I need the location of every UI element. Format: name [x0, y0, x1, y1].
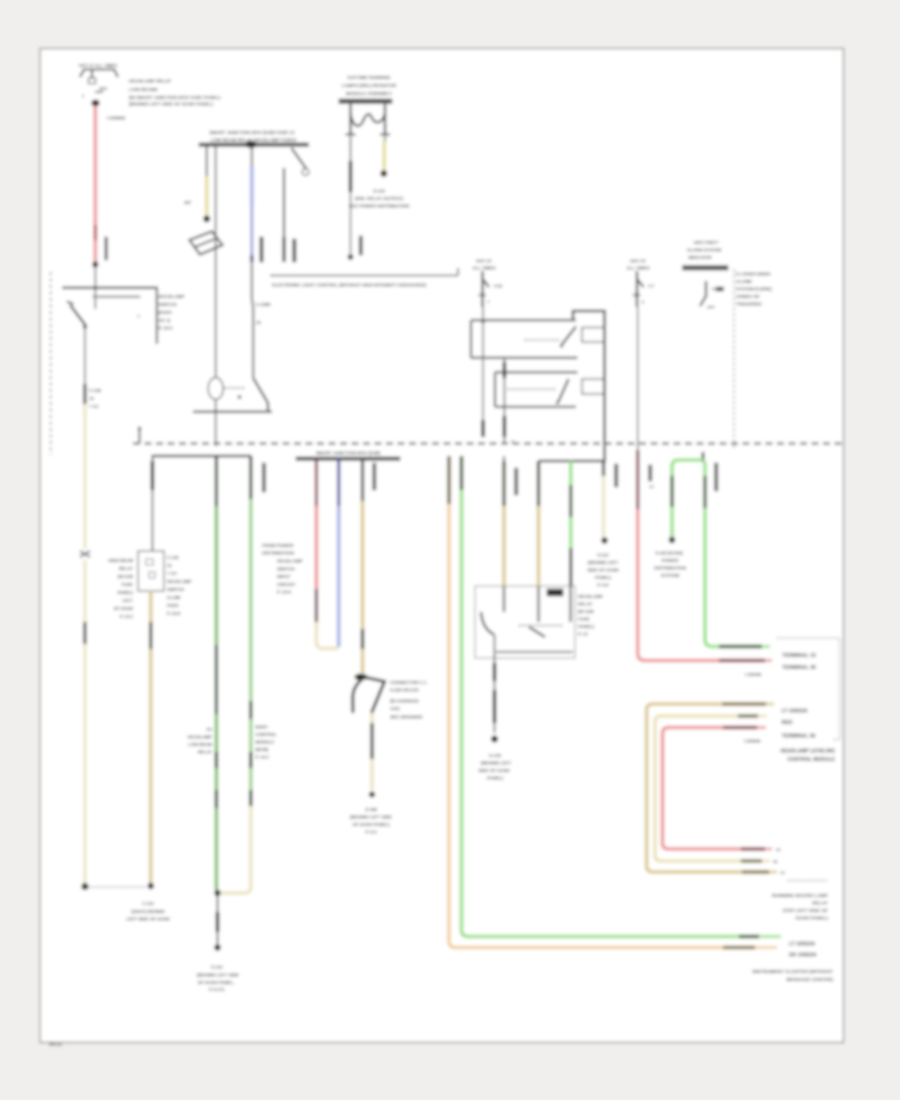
svg-text:ARMED OR: ARMED OR — [736, 294, 760, 299]
wire W4 lower thin wire — [252, 308, 254, 378]
svg-text:MODULE ASSEMBLY: MODULE ASSEMBLY — [346, 91, 392, 96]
resistor terminal ticks — [346, 133, 356, 135]
svg-text:HEADLAMP: HEADLAMP — [159, 294, 185, 299]
svg-text:RELAY: RELAY — [812, 901, 829, 907]
svg-text:(BEHIND LEFT: (BEHIND LEFT — [588, 560, 619, 565]
svg-text:HEADLAMP: HEADLAMP — [578, 594, 603, 599]
svg-text:ALARM: ALARM — [736, 279, 752, 284]
svg-text:(GRAY) BEHIND: (GRAY) BEHIND — [131, 909, 164, 914]
fuse F2 element — [481, 271, 483, 307]
svg-text:P. 14-2: P. 14-2 — [256, 755, 270, 760]
junction node red wire and bus — [94, 286, 98, 290]
hook circle — [302, 169, 309, 176]
svg-text:LT GREEN: LT GREEN — [782, 709, 808, 715]
svg-text:DISTRIBUTION: DISTRIBUTION — [262, 551, 294, 556]
svg-text:SEE POWER DISTRIBUTION: SEE POWER DISTRIBUTION — [349, 204, 410, 209]
wire W17 cream below flag — [370, 713, 374, 723]
connector bar C9 — [649, 465, 652, 481]
ring terminal wedge W3 — [190, 232, 223, 255]
relay feed line A — [471, 319, 576, 321]
connector bar C2 — [293, 239, 296, 262]
svg-text:(IN SMART JUNCTION BOX FUSE PA: (IN SMART JUNCTION BOX FUSE PANEL) — [129, 95, 221, 100]
wire W13 dark top segment — [215, 456, 218, 506]
wire W13 dark segment 2 — [215, 645, 218, 714]
svg-text:C-130: C-130 — [167, 555, 179, 560]
svg-text:LT GREEN: LT GREEN — [789, 942, 815, 948]
system reference line electronic light control — [270, 274, 458, 276]
svg-text:DISTRIBUTION: DISTRIBUTION — [654, 566, 686, 571]
svg-text:F.32: F.32 — [494, 284, 503, 289]
svg-text:SEE GROUNDS: SEE GROUNDS — [390, 715, 423, 720]
wire W13 dark segment 3 — [215, 752, 218, 768]
wire W14 dark segment 4 — [249, 790, 252, 806]
wire W6 thin lower — [350, 192, 352, 254]
svg-text:HEADLAMP: HEADLAMP — [277, 559, 303, 564]
wire W1 red segment — [94, 106, 98, 225]
wire W9 dark segment B — [503, 416, 506, 437]
wire W23 green jog — [672, 460, 703, 538]
module DRL underline bar — [339, 99, 392, 104]
svg-text:POWER: POWER — [661, 558, 679, 563]
svg-text:C-2280: C-2280 — [256, 302, 271, 307]
wire W13 green — [215, 506, 219, 645]
wire W4 blue segment — [250, 166, 254, 205]
system bracket right — [777, 638, 840, 740]
svg-text:RELAY: RELAY — [578, 602, 593, 607]
svg-text:CONTROL: CONTROL — [256, 732, 278, 737]
splice dot S4 — [601, 537, 607, 543]
svg-text:CIRCUIT: CIRCUIT — [277, 582, 295, 587]
svg-text:(BEHIND LEFT SIDE: (BEHIND LEFT SIDE — [350, 815, 392, 820]
svg-text:56: 56 — [773, 859, 778, 864]
wire W17 tan — [361, 501, 365, 629]
wire W15 pink — [315, 506, 319, 589]
svg-text:PANEL): PANEL) — [578, 624, 595, 629]
dimmer switch body circle — [208, 378, 223, 400]
relay box outline — [475, 586, 575, 658]
svg-text:DK GREEN: DK GREEN — [789, 953, 817, 959]
wire W17 dark segment 3 — [370, 723, 373, 759]
connector bar C6 — [373, 463, 376, 490]
svg-text:OFF: OFF — [707, 305, 716, 310]
headlamp switch inner bar — [93, 296, 141, 298]
wire W17 tan dark segment — [361, 461, 364, 502]
svg-text:C-112: C-112 — [142, 901, 154, 906]
svg-text:(IN HARNESS: (IN HARNESS — [390, 699, 419, 704]
svg-text:20A: 20A — [633, 293, 642, 298]
svg-text:P. 9-6: P. 9-6 — [597, 583, 609, 588]
svg-text:15: 15 — [256, 320, 261, 325]
dashed signal line — [733, 269, 735, 448]
svg-text:LOW BEAMS: LOW BEAMS — [129, 87, 158, 92]
svg-text:P. 13-2: P. 13-2 — [120, 614, 134, 619]
svg-text:15: 15 — [649, 484, 654, 489]
wire W29 tan L-shape — [447, 456, 451, 504]
svg-text:(IN SJB: (IN SJB — [578, 609, 594, 614]
wire W14 dark top segment — [249, 456, 252, 499]
wire W1 into switch — [94, 267, 96, 309]
svg-text:ELECTRONIC LIGHT CONTROL (WITH: ELECTRONIC LIGHT CONTROL (WITHOUT HIGH I… — [272, 283, 427, 288]
svg-text:14A): 14A) — [390, 706, 400, 711]
wire W11 dark segment — [151, 461, 154, 490]
wire W9 dark segment A — [503, 362, 506, 378]
relay R1 switch arm — [562, 327, 577, 346]
wire W4 blue dark segment — [251, 205, 254, 255]
svg-text:ALARM SYSTEM: ALARM SYSTEM — [687, 248, 722, 253]
wire W10 from fuse F3 — [637, 307, 639, 450]
wire W22 maroon end segment — [719, 659, 765, 663]
bus left end tick — [138, 430, 140, 443]
wire W12 dark segment — [149, 622, 152, 649]
junction dot on line A — [481, 319, 485, 323]
connector bar C5 — [262, 463, 265, 492]
svg-text:CONNECTOR C-1: CONNECTOR C-1 — [390, 680, 427, 685]
lower junction line L2 — [152, 455, 252, 457]
dotted tie line — [88, 886, 147, 888]
svg-text:(IN SJB: (IN SJB — [118, 574, 133, 579]
wire W27 maroon segment top — [723, 726, 757, 729]
wire W9 relay output — [503, 358, 505, 362]
relay box switch arm — [529, 627, 545, 637]
wire W21 ivory stub — [602, 461, 605, 476]
svg-text:T GY: T GY — [167, 571, 177, 576]
headlamp switch lever — [67, 302, 74, 305]
svg-text:RUNNING BOARD LAMP: RUNNING BOARD LAMP — [772, 893, 829, 899]
svg-text:G-110: G-110 — [489, 753, 502, 758]
svg-text:C-130: C-130 — [89, 388, 102, 393]
center wire lower — [215, 400, 217, 447]
svg-text:(DRL RELAY OUTPUT): (DRL RELAY OUTPUT) — [355, 196, 403, 201]
wire W24 green to elbow terminal 15 — [705, 508, 762, 647]
wire W15 dark segment — [315, 589, 318, 622]
svg-text:HIGH BEAM: HIGH BEAM — [108, 558, 133, 563]
wire W1 red lower segment — [94, 240, 98, 262]
svg-text:INDICATOR: INDICATOR — [688, 255, 712, 260]
wire W24 dark segment — [703, 476, 706, 508]
wire W2 crossing tick — [80, 551, 90, 557]
wire W2 end terminal — [81, 883, 88, 890]
anti-theft switch symbol — [705, 281, 707, 297]
wire W13 green 3 — [215, 768, 219, 790]
svg-text:FLASHES WHEN: FLASHES WHEN — [736, 272, 770, 277]
svg-text:(TOP LEFT SIDE OF: (TOP LEFT SIDE OF — [783, 908, 828, 914]
module anti-theft underline bar — [683, 266, 729, 271]
wire W24 dark end segment — [719, 645, 762, 648]
svg-text:I-20445: I-20445 — [745, 672, 762, 678]
svg-text:S-420 SPLICE: S-420 SPLICE — [390, 688, 419, 693]
wire W1 terminal dot — [92, 262, 98, 268]
wire W22 maroon segment — [636, 450, 639, 509]
connector bar C7 — [515, 468, 518, 495]
wire W27 maroon segment bottom — [741, 847, 765, 850]
crimp splice flag symbol — [355, 674, 368, 681]
wire W29 dark end segment — [723, 946, 755, 949]
wire W25 dark segment bottom — [742, 870, 769, 873]
svg-text:OF 1): OF 1) — [159, 318, 171, 323]
wire W6 dark segment — [349, 161, 352, 192]
wire W3 black from SJB — [206, 147, 208, 177]
svg-text:FUSE: FUSE — [578, 617, 590, 622]
svg-text:SWITCH: SWITCH — [159, 302, 178, 307]
relay left vertical — [470, 320, 472, 358]
wire W14 dark segment 3 — [249, 752, 252, 768]
wire W5 gray from SJB — [283, 168, 285, 237]
svg-text:OF DASH PANEL,: OF DASH PANEL, — [198, 980, 235, 985]
svg-text:P. 9-17): P. 9-17) — [209, 987, 225, 992]
svg-text:SWITCH: SWITCH — [277, 566, 295, 571]
svg-text:S-115 (DASH): S-115 (DASH) — [655, 551, 683, 556]
wire W13 ground lead — [217, 896, 219, 912]
wire W28 end tick — [759, 935, 781, 938]
fuse F1 holder — [80, 70, 118, 78]
svg-text:HEADLAMP LEVELING: HEADLAMP LEVELING — [780, 749, 835, 755]
wire W27 inner red loop — [663, 728, 766, 850]
wire W2 inline connector segment — [83, 384, 86, 404]
svg-text:ALL TIMES: ALL TIMES — [472, 266, 495, 271]
svg-text:P. 9-4: P. 9-4 — [365, 830, 377, 835]
headlamp switch pivot — [83, 325, 87, 329]
wire W5 dark segment — [282, 237, 285, 262]
svg-text:54-21: 54-21 — [49, 1042, 62, 1048]
wire W11 black drop — [151, 456, 153, 461]
wire W3 terminal dot — [203, 215, 210, 222]
splice dot S2 — [214, 890, 220, 896]
wire W7 right post yellow — [384, 136, 386, 141]
ground terminal dot — [214, 944, 220, 950]
module SJB underline bar — [199, 143, 309, 146]
svg-text:HEADLAMP: HEADLAMP — [188, 735, 212, 740]
connector bar C3 — [260, 237, 263, 262]
svg-text:DASH PANEL): DASH PANEL) — [796, 916, 829, 922]
wire W12 tan tail — [149, 649, 153, 884]
wire W13 ground dark segment — [216, 912, 219, 932]
relay feed line B — [471, 357, 577, 359]
svg-text:15A: 15A — [99, 86, 108, 91]
module SJB lower underline bar — [296, 457, 400, 460]
svg-text:F.7: F.7 — [649, 284, 655, 289]
wire W17 dark segment 2 — [361, 629, 364, 649]
svg-text:(BEHIND LEFT SIDE OF DASH PANE: (BEHIND LEFT SIDE OF DASH PANEL) — [129, 102, 213, 107]
wire W2 inline connector segment 2 — [83, 622, 86, 644]
inline connector box B1 — [138, 551, 164, 591]
svg-text:S-110: S-110 — [373, 189, 385, 194]
svg-text:15A: 15A — [478, 293, 487, 298]
relay R2 dashed link — [508, 388, 556, 390]
relay R2 coil box — [582, 379, 604, 394]
resistor element — [351, 104, 386, 126]
wire W14 green 2 — [249, 719, 253, 752]
svg-text:SYSTEM IS (PRE): SYSTEM IS (PRE) — [736, 287, 772, 292]
wire W6 left post — [350, 136, 352, 161]
splice dot S1 — [380, 170, 387, 177]
svg-text:RELAY: RELAY — [198, 750, 212, 755]
wire W13 green tail — [215, 808, 219, 890]
svg-text:HOT AT: HOT AT — [476, 259, 492, 264]
wire W23 dark segment — [670, 476, 673, 507]
wire W25 outer tan loop — [647, 704, 770, 872]
svg-text:MESSAGE CENTER): MESSAGE CENTER) — [786, 977, 833, 983]
connector bar C10 — [715, 463, 718, 491]
wire W26 dark segment bottom — [741, 859, 762, 862]
wire W14 green 3 — [249, 768, 253, 790]
svg-text:LEFT SIDE OF DASH: LEFT SIDE OF DASH — [126, 917, 169, 922]
wire W2 upper gray — [84, 328, 86, 384]
svg-text:P. 10-5: P. 10-5 — [277, 590, 291, 595]
dashed boundary line left — [50, 272, 52, 455]
svg-text:TERMINAL 56: TERMINAL 56 — [782, 734, 816, 740]
wire W4 tip — [250, 255, 253, 262]
svg-text:CONTROL MODULE: CONTROL MODULE — [787, 757, 835, 763]
svg-text:LOW BEAM: LOW BEAM — [188, 742, 212, 747]
fuse F1 terminal — [91, 100, 99, 107]
wire W13 dark segment 4 — [215, 790, 218, 808]
wire W12 tan below box — [149, 591, 153, 622]
ground wire from relay box — [494, 635, 496, 664]
wire W17 tan lower — [361, 649, 365, 673]
relay feed line C — [495, 371, 577, 373]
wire W25 dark segment top — [722, 702, 766, 705]
svg-text:FEED: FEED — [167, 603, 178, 608]
svg-text:467: 467 — [184, 200, 192, 205]
wire W24 end tick — [762, 645, 770, 648]
relay box bold bar — [547, 589, 563, 596]
svg-text:S-112: S-112 — [597, 553, 609, 558]
wire W18 tan into relay box — [503, 456, 505, 461]
wire W24 green vertical — [703, 462, 707, 476]
relay box wire stubs — [503, 586, 505, 612]
svg-text:22: 22 — [167, 563, 172, 568]
svg-text:BODY: BODY — [256, 725, 269, 730]
wire W19 tan — [537, 461, 540, 506]
wire W16 blue dark segment — [337, 458, 340, 506]
svg-text:SIDE OF DASH: SIDE OF DASH — [587, 568, 618, 573]
svg-text:SMART JUNCTION BOX (SJB) FUSE: SMART JUNCTION BOX (SJB) FUSE 12 — [209, 130, 295, 135]
wire W26 dark segment top — [738, 714, 758, 717]
svg-text:ANTI-THEFT: ANTI-THEFT — [693, 240, 719, 245]
svg-text:ILLUM: ILLUM — [167, 595, 181, 600]
relay box dashed link — [519, 625, 563, 627]
svg-text:HOT AT ALL TIMES: HOT AT ALL TIMES — [79, 63, 117, 68]
svg-text:SYSTEM: SYSTEM — [661, 573, 680, 578]
svg-text:PANEL): PANEL) — [595, 575, 612, 580]
relay top jumper — [573, 311, 605, 461]
wire W14 green — [249, 499, 253, 701]
svg-text:(BEHIND LEFT: (BEHIND LEFT — [481, 761, 512, 766]
relay R1 coil box — [582, 328, 605, 343]
ground terminal dot G2 — [491, 736, 498, 743]
fuse F1 element — [91, 70, 93, 79]
svg-text:(PART: (PART — [159, 310, 173, 315]
relay box curve to ground — [481, 612, 494, 635]
svg-text:PANEL): PANEL) — [487, 776, 504, 781]
svg-text:FROM POWER: FROM POWER — [262, 543, 294, 548]
wire W20 green — [569, 461, 573, 485]
wire W26 middle tan loop — [655, 716, 762, 861]
svg-text:MODULE: MODULE — [256, 740, 275, 745]
svg-text:TO: TO — [206, 727, 213, 732]
svg-text:30: 30 — [776, 847, 781, 852]
splice dot S3 — [369, 792, 375, 798]
wire W28 green L-shape — [460, 456, 464, 490]
svg-text:I-20546: I-20546 — [744, 739, 761, 745]
wire W14 dark segment 2 — [249, 701, 252, 719]
svg-text:HEADLAMP RELAY: HEADLAMP RELAY — [129, 79, 171, 84]
svg-text:P. 24-8: P. 24-8 — [167, 611, 181, 616]
wire W13 green 2 — [215, 714, 219, 752]
svg-text:I-203845: I-203845 — [107, 116, 126, 121]
relay R1 dashed link — [525, 339, 562, 341]
headlamp switch bracket corner — [156, 288, 157, 344]
connector bar C8 — [615, 464, 618, 487]
wire W2 ivory lower — [83, 560, 87, 622]
svg-text:S-108: S-108 — [365, 807, 377, 812]
wire W4 thin continuation — [251, 262, 253, 298]
svg-text:PANEL): PANEL) — [117, 590, 133, 595]
wire W15 cream elbow — [316, 622, 338, 649]
relay box inner line — [496, 651, 573, 653]
svg-text:FUSE: FUSE — [122, 582, 134, 587]
center wire from SJB to dimmer switch — [215, 147, 217, 378]
svg-text:OF DASH PANEL): OF DASH PANEL) — [353, 822, 391, 827]
wire W15 maroon top segment — [315, 461, 318, 507]
dimmer common line — [193, 411, 272, 413]
relay box feed line — [539, 460, 607, 462]
svg-text:19: 19 — [89, 396, 94, 401]
relay R2 switch arm — [559, 379, 569, 402]
svg-text:HEADLAMP: HEADLAMP — [167, 579, 191, 584]
wire W12 end dot — [148, 883, 154, 889]
svg-text:LEFT: LEFT — [122, 598, 133, 603]
svg-text:P. 24-2: P. 24-2 — [159, 326, 174, 331]
diagonal lead from SJB — [291, 148, 306, 169]
wire W16 blue — [337, 506, 341, 647]
svg-text:(BCM): (BCM) — [256, 747, 269, 752]
wire W29 end tick — [755, 946, 777, 949]
svg-text:TERMINAL 30: TERMINAL 30 — [782, 665, 816, 671]
svg-text:P. 13: P. 13 — [578, 632, 588, 637]
wire W1 inline connector segment — [94, 225, 98, 240]
dimmer switch arm — [253, 378, 268, 403]
svg-text:DAYTIME RUNNING: DAYTIME RUNNING — [348, 75, 391, 80]
svg-text:RED: RED — [782, 720, 793, 726]
dimmer dashed link — [224, 387, 247, 389]
wire W28 dark end segment — [739, 935, 759, 938]
svg-text:SWITCH: SWITCH — [167, 587, 184, 592]
svg-text:ALL TIMES: ALL TIMES — [626, 266, 649, 271]
dashed power bus — [133, 442, 843, 444]
wire W11 gray tail — [151, 490, 153, 551]
relay left vertical 2 — [494, 372, 496, 407]
wire W22 pink elbow to terminal 30 — [638, 509, 765, 661]
bus wire to headlamp switch — [62, 287, 155, 290]
svg-text:(BEHIND LEFT SIDE: (BEHIND LEFT SIDE — [197, 973, 239, 978]
svg-text:T GY: T GY — [89, 404, 99, 409]
wire W2 ivory tail — [83, 644, 87, 885]
wire W3 ivory segment — [205, 176, 209, 215]
splice dot S5 — [669, 537, 675, 543]
wire W14 cream tail turning left — [221, 806, 251, 893]
wire W8 dark segment — [481, 420, 484, 437]
svg-text:INSTRUMENT CLUSTER (WITHOUT: INSTRUMENT CLUSTER (WITHOUT — [752, 969, 833, 975]
wire W17 cream tail — [370, 759, 374, 790]
wire W8 from fuse F2 — [482, 307, 484, 420]
svg-text:SMART JUNCTION BOX (SJB): SMART JUNCTION BOX (SJB) — [316, 451, 381, 456]
svg-text:LAMPS (DRL) RESISTOR: LAMPS (DRL) RESISTOR — [342, 83, 397, 88]
connector bar C1 — [105, 237, 108, 260]
bus tick green — [702, 452, 705, 462]
svg-text:HOT AT: HOT AT — [630, 259, 646, 264]
svg-text:RELAY: RELAY — [119, 566, 133, 571]
